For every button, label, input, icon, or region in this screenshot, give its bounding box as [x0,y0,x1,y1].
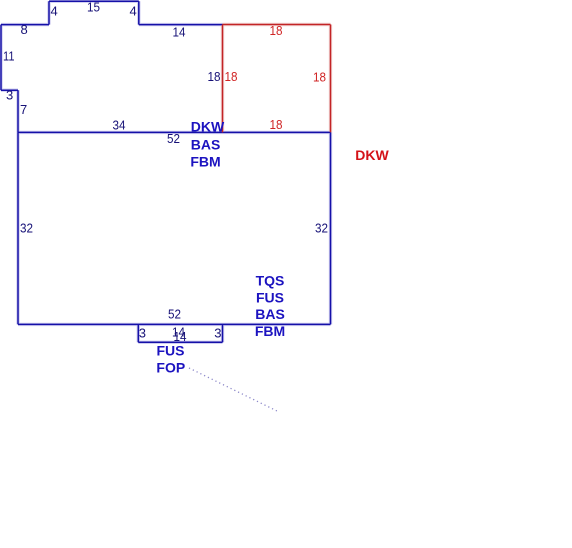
svg-text:FBM: FBM [190,153,220,169]
svg-text:3: 3 [6,88,13,103]
wall outline soft halo [1,1,331,342]
wall top-right horizontal [139,24,223,26]
svg-text:18: 18 [270,117,283,132]
svg-text:3: 3 [139,326,146,341]
svg-text:18: 18 [208,69,221,84]
svg-text:TQS: TQS [256,272,285,288]
wall main top horizontal [18,131,331,133]
porch box bottom horizontal [138,341,222,343]
dotted leader line [189,368,277,411]
svg-text:FOP: FOP [156,359,185,375]
svg-text:DKW: DKW [191,119,225,135]
svg-text:18: 18 [313,70,326,85]
wall left vertical [0,25,2,91]
wall bump left vertical [48,1,50,24]
svg-text:32: 32 [20,221,33,236]
porch box right vertical [222,324,224,342]
svg-text:11: 11 [3,49,15,64]
wall main left vertical [17,132,19,324]
svg-text:8: 8 [21,22,28,37]
svg-text:FUS: FUS [256,289,284,305]
svg-text:18: 18 [270,23,283,38]
wall bump right vertical [138,1,140,24]
svg-text:7: 7 [20,102,27,117]
wall main right vertical [330,132,332,324]
svg-text:FUS: FUS [157,343,185,359]
svg-text:DKW: DKW [355,147,389,163]
svg-text:3: 3 [214,326,221,341]
svg-text:14: 14 [173,25,186,40]
svg-text:4: 4 [51,4,58,19]
svg-text:BAS: BAS [255,306,285,322]
red DKW left vertical [222,25,224,133]
wall top-left horizontal [1,24,49,26]
svg-text:52: 52 [167,131,180,146]
svg-text:4: 4 [130,4,137,19]
svg-text:15: 15 [87,0,100,15]
wall bump top horizontal [49,0,139,2]
red DKW top horizontal [223,24,331,26]
svg-text:32: 32 [315,220,328,235]
porch box left vertical [137,324,139,342]
red DKW right vertical [330,25,332,133]
svg-text:52: 52 [168,307,181,322]
svg-text:18: 18 [225,69,238,84]
wall main bottom horizontal [18,323,331,325]
svg-text:BAS: BAS [191,137,221,153]
svg-text:FBM: FBM [255,323,285,339]
wall jog vertical [17,90,19,132]
wall jog horizontal [1,89,18,91]
svg-text:34: 34 [113,118,126,133]
